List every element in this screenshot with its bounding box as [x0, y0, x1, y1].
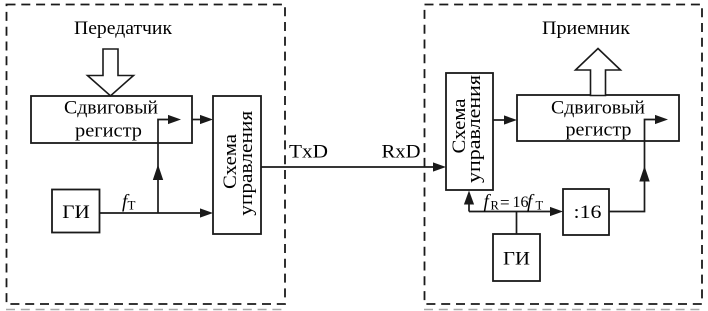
- svg-text:R: R: [491, 199, 500, 213]
- svg-text:TxD: TxD: [289, 141, 328, 162]
- svg-text:регистр: регистр: [75, 120, 142, 141]
- svg-text:T: T: [536, 199, 544, 213]
- svg-text:Сдвиговый: Сдвиговый: [551, 97, 645, 118]
- svg-text:Сдвиговый: Сдвиговый: [64, 98, 158, 119]
- svg-text:ГИ: ГИ: [62, 202, 90, 223]
- svg-text:Передатчик: Передатчик: [74, 18, 173, 39]
- svg-text:ГИ: ГИ: [503, 249, 530, 270]
- svg-text:регистр: регистр: [566, 120, 632, 141]
- svg-text:=: =: [500, 193, 510, 212]
- svg-text:управления: управления: [236, 111, 257, 216]
- svg-text::16: :16: [574, 202, 602, 223]
- svg-text:управления: управления: [464, 75, 485, 183]
- svg-text:Приемник: Приемник: [542, 18, 631, 39]
- svg-text:T: T: [128, 198, 136, 213]
- svg-text:RxD: RxD: [382, 141, 421, 162]
